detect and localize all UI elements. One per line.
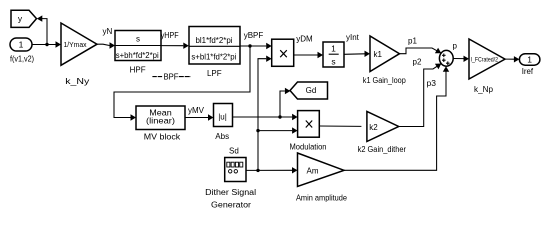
svg-text:HPF: HPF: [130, 65, 146, 74]
svg-text:BPF: BPF: [164, 73, 179, 82]
svg-text:k1: k1: [374, 50, 383, 59]
svg-text:p3: p3: [427, 78, 437, 88]
svg-text:Amin amplitude: Amin amplitude: [296, 194, 348, 203]
svg-text:k1 Gain_loop: k1 Gain_loop: [363, 76, 406, 85]
svg-text:p2: p2: [413, 57, 422, 66]
svg-text:Sd: Sd: [229, 147, 239, 156]
svg-text:Abs: Abs: [215, 132, 229, 141]
svg-text:yBPF: yBPF: [244, 31, 264, 40]
svg-text:1: 1: [527, 55, 532, 65]
svg-text:Iref: Iref: [522, 67, 534, 76]
svg-text:Generator: Generator: [211, 201, 251, 210]
svg-text:yHPF: yHPF: [161, 31, 179, 40]
svg-text:k2 Gain_dither: k2 Gain_dither: [358, 145, 407, 154]
svg-text:f(v1,v2): f(v1,v2): [10, 54, 34, 63]
svg-text:I_FCrated/2: I_FCrated/2: [471, 58, 499, 64]
svg-text:k2: k2: [369, 123, 378, 132]
svg-text:Modulation: Modulation: [290, 143, 327, 152]
svg-text:s+bl1*fd*2*pi: s+bl1*fd*2*pi: [191, 53, 236, 62]
svg-text:p1: p1: [408, 37, 417, 46]
svg-text:Gd: Gd: [306, 86, 317, 95]
svg-text:LPF: LPF: [207, 69, 222, 78]
svg-text:1: 1: [331, 44, 336, 54]
svg-text:yMV: yMV: [188, 106, 205, 115]
svg-text:k_Ny: k_Ny: [65, 77, 89, 86]
svg-text:MV block: MV block: [144, 133, 181, 142]
svg-text:Am: Am: [307, 166, 319, 175]
svg-text:yInt: yInt: [346, 33, 360, 42]
svg-text:k_Np: k_Np: [474, 85, 494, 94]
svg-text:p: p: [453, 42, 458, 51]
svg-text:Dither Signal: Dither Signal: [205, 188, 256, 197]
svg-text:s: s: [136, 35, 140, 44]
svg-text:s+bh*fd*2*pi: s+bh*fd*2*pi: [116, 51, 159, 60]
svg-text:bl1*fd*2*pi: bl1*fd*2*pi: [196, 36, 233, 45]
svg-text:(linear): (linear): [146, 117, 175, 126]
svg-text:yDM: yDM: [296, 35, 313, 44]
svg-text:1/Ymax: 1/Ymax: [64, 40, 87, 49]
svg-text:s: s: [331, 57, 335, 67]
svg-text:1: 1: [19, 40, 24, 50]
svg-text:yN: yN: [103, 27, 113, 36]
svg-text:|u|: |u|: [218, 113, 227, 122]
